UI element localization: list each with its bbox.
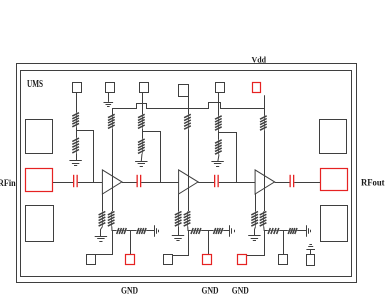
inner border frame: [21, 71, 352, 277]
wire bias1 to ground: [76, 153, 78, 160]
ground source1: [95, 237, 107, 242]
svg-text:GND: GND: [121, 286, 138, 296]
wire U1 source left: [102, 194, 104, 211]
resistor R3a (bias3 upper): [215, 116, 222, 131]
wire T5 to Vdd bus hop: [218, 93, 220, 116]
wire junction1 run: [112, 230, 116, 232]
op-amp U3: [255, 170, 275, 194]
wire bias2 mid: [142, 129, 144, 139]
resistor RD1 (drain 1): [108, 114, 115, 129]
pad T4 (drain feed 2): [179, 85, 189, 97]
resistor RH3b: [288, 228, 298, 234]
wire bias1 mid: [76, 127, 78, 138]
wire T2 to ground: [108, 93, 110, 102]
wire node3 mid: [279, 230, 287, 232]
capacitor C4 (red): [290, 175, 295, 187]
resistor RH1b: [136, 228, 146, 234]
wire RS2a to ground: [178, 227, 180, 236]
resistor R2a (bias2 upper): [138, 114, 145, 129]
label RFout: [361, 179, 385, 189]
pad P1 top-left: [26, 120, 53, 154]
op-amp U1: [102, 170, 122, 194]
wire C2 to U2 input: [141, 182, 178, 184]
op-amp U2: [179, 170, 199, 194]
label GND 2: [202, 286, 219, 296]
wire T1 to R: [76, 93, 78, 113]
wire drop stage1 to pad B1: [96, 231, 113, 255]
ground under pad T2: [104, 103, 114, 107]
pad B5 GND (red): [238, 255, 247, 265]
wire drop stage3 to pad B5: [247, 231, 265, 256]
side ground 3: [307, 225, 311, 237]
ground bias1: [69, 161, 81, 166]
ground bias3: [211, 162, 223, 167]
resistor RS3a: [251, 211, 258, 226]
wire RH2b to ground: [223, 230, 230, 232]
resistor RS1b: [108, 211, 115, 226]
ground bias2: [135, 162, 147, 167]
Vdd bus wire: [113, 103, 265, 115]
wire RS2b to junction: [187, 226, 189, 231]
wire drain2 down: [188, 130, 190, 212]
wire drop to pad B6: [283, 231, 285, 255]
label Vdd: [252, 55, 267, 65]
wire node2 mid: [201, 230, 213, 232]
svg-text:UMS: UMS: [27, 79, 43, 90]
wire U2 source left: [178, 194, 180, 211]
resistor RH2a: [191, 228, 202, 234]
wire bias2 to ground: [140, 154, 143, 161]
wire junction2 run: [188, 230, 191, 232]
wire to amp3 input node: [219, 133, 237, 183]
pad T6 Vdd (red): [253, 83, 261, 93]
label GND 1: [121, 286, 138, 296]
pad RFin (red): [26, 169, 53, 192]
ground source3: [248, 236, 260, 241]
wire T6 down: [264, 95, 266, 115]
pad P2 bottom-left: [26, 206, 54, 242]
wire U3 out to C4: [275, 182, 290, 184]
wire RS1b to junction: [111, 226, 113, 231]
resistor RS2b: [184, 211, 191, 226]
via capacitor body: [307, 255, 315, 266]
wire bias3 mid: [218, 131, 220, 140]
pad B3: [164, 255, 173, 265]
pad T2 (ground pad): [106, 83, 115, 93]
pad T5 (gate bias 3): [216, 83, 225, 93]
wire via stem: [310, 249, 312, 254]
svg-text:Vdd: Vdd: [252, 55, 267, 65]
resistor RD3 (drain 3): [260, 116, 267, 131]
pad P3 top-right: [320, 120, 347, 154]
label GND 3: [232, 286, 249, 296]
svg-text:RFin: RFin: [0, 179, 16, 189]
label RFin: [0, 179, 16, 189]
wire U1 out to C2: [122, 182, 137, 184]
wire bias3 to ground: [218, 155, 219, 162]
pad T3 (gate bias 2): [140, 83, 149, 93]
ground above via: [306, 245, 315, 250]
resistor RS1a: [99, 211, 106, 226]
wire C4 to RFout pad: [294, 182, 320, 184]
wire RFin to C1: [53, 182, 73, 184]
capacitor C1 (red): [73, 175, 78, 187]
resistor RH1a: [116, 228, 127, 234]
pad B6: [279, 255, 288, 265]
side ground 1: [155, 225, 159, 237]
feedback wire to amp1 input: [77, 131, 94, 183]
wire C3 to U3 input: [219, 182, 255, 184]
svg-text:GND: GND: [232, 286, 249, 296]
pad B2 GND (red): [126, 255, 135, 265]
svg-text:GND: GND: [202, 286, 219, 296]
resistor R2b (bias2 lower): [138, 139, 145, 154]
wire node1 mid: [127, 230, 136, 232]
resistor RD2 (drain 2): [184, 114, 191, 130]
wire T3 to Vdd bus hop: [142, 93, 144, 114]
wire RS3a to ground: [255, 227, 256, 236]
wire junction3 run: [264, 230, 267, 232]
side ground 2: [230, 225, 235, 237]
wire RH3b to ground: [298, 230, 307, 232]
wire drain1 down: [112, 129, 114, 212]
wire RS1a to ground: [101, 227, 103, 237]
resistor R3b (bias3 lower): [215, 140, 222, 155]
pad P4 bottom-right: [321, 206, 348, 242]
wire drop to pad B2: [130, 231, 132, 255]
ground source2: [172, 236, 184, 241]
wire C1 to U1 input: [78, 182, 103, 184]
wire RS3b to junction: [263, 226, 266, 231]
resistor RS2a: [175, 211, 182, 226]
resistor R1a (bias1 upper): [72, 112, 79, 127]
wire to amp2 input node: [143, 132, 161, 183]
wire drain3 down: [264, 131, 266, 212]
wire RH1b to ground: [147, 230, 155, 232]
pad B1: [87, 255, 96, 265]
wire U2 out to C3: [198, 182, 215, 184]
outer border frame: [17, 64, 357, 283]
pad RFout (red): [321, 169, 348, 191]
resistor RH3a: [268, 228, 280, 234]
pad T1 (gate bias 1): [73, 83, 82, 93]
wire drop stage2 to pad B3: [173, 231, 189, 256]
wire T4 down to R: [188, 96, 190, 114]
resistor R1b (bias1 lower): [72, 138, 79, 153]
svg-text:RFout: RFout: [361, 179, 385, 189]
label UMS: [27, 79, 43, 90]
resistor RS3b: [260, 211, 267, 226]
capacitor C2 (red): [137, 175, 142, 187]
pad B4 GND (red): [203, 255, 212, 265]
capacitor C3 (red): [214, 175, 219, 187]
wire U3 source left: [255, 194, 257, 211]
resistor RH2b: [213, 228, 223, 234]
wire drop to pad B4: [208, 231, 210, 255]
